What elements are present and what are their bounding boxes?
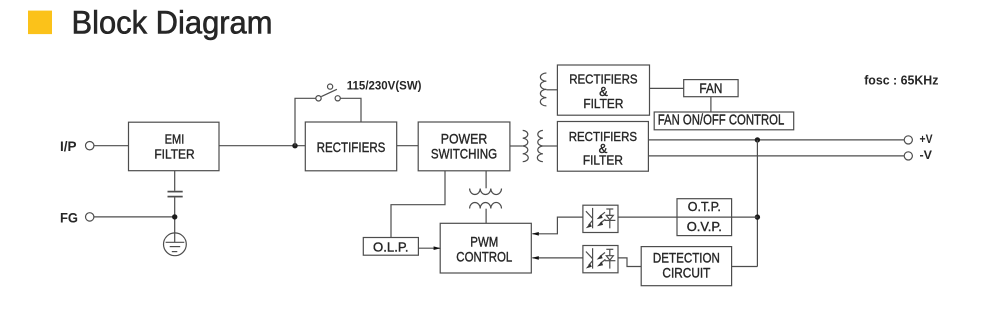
detection circuit block: [641, 247, 731, 286]
svg-text:FAN ON/OFF CONTROL: FAN ON/OFF CONTROL: [658, 112, 785, 128]
wire feedback transformer to PWM control: [485, 209, 487, 224]
wire switch to rectifiers top: [340, 98, 361, 122]
wire +V rail down to OVP and detection: [756, 140, 758, 267]
wire junction up to switch: [295, 98, 316, 145]
wire EMI filter to rectifiers: [219, 145, 305, 147]
svg-text:O.T.P.: O.T.P.: [688, 199, 721, 214]
svg-text:-V: -V: [920, 150, 933, 162]
title square: [28, 11, 52, 34]
wire photocoupler1 to OTP/OVP: [618, 216, 677, 218]
svg-text:Block Diagram: Block Diagram: [72, 5, 273, 41]
svg-text:CONTROL: CONTROL: [456, 250, 512, 265]
wire fan rectifiers to fan: [650, 87, 684, 89]
wire detection circuit to +V sense line: [732, 266, 758, 268]
junction node at OVP line: [755, 214, 760, 219]
wire Y-cap to FG node: [174, 197, 176, 233]
junction node FG: [172, 214, 177, 219]
svg-text:POWER: POWER: [441, 130, 487, 146]
wire power switching to feedback transformer: [485, 171, 487, 189]
fan on/off control block: [654, 112, 794, 130]
wire OLP to PWM (arrow): [418, 247, 439, 249]
wire fan to fan control: [710, 97, 712, 112]
svg-text:FG: FG: [60, 210, 78, 226]
feedback transformer bottom winding: [470, 202, 502, 208]
svg-text:FILTER: FILTER: [154, 146, 194, 161]
wire OVP to junction: [732, 216, 758, 218]
svg-text:RECTIFIERS: RECTIFIERS: [317, 139, 386, 155]
wire photocoupler1 to PWM (arrow): [533, 217, 583, 234]
OTP OVP block: [677, 199, 732, 236]
capacitor Y-cap plate1: [168, 191, 183, 193]
terminal I/P: [86, 142, 94, 150]
svg-text:SWITCHING: SWITCHING: [431, 145, 497, 161]
svg-text:DETECTION: DETECTION: [653, 250, 720, 265]
terminal FG: [86, 213, 94, 221]
svg-text:I/P: I/P: [60, 138, 77, 154]
svg-text:+V: +V: [920, 134, 933, 146]
switch SW 115/230V: [316, 84, 341, 101]
wire photocoupler2 to PWM (arrow): [533, 257, 583, 259]
wire transformer secondary to rectifiers-filter: [543, 145, 558, 147]
svg-text:fosc : 65KHz: fosc : 65KHz: [864, 73, 939, 88]
wire power switching to transformer primary: [510, 145, 523, 147]
rectifiers block: [305, 122, 396, 171]
terminal +V: [904, 136, 912, 144]
feedback transformer top winding: [470, 189, 502, 195]
wire power switching to OLP: [391, 171, 445, 238]
photocoupler U1: [583, 205, 618, 232]
fan block: [684, 80, 738, 97]
wire +V rail: [648, 139, 904, 141]
terminal -V: [904, 152, 912, 160]
transformer T1 primary winding: [523, 130, 529, 161]
wire I/P to EMI filter: [94, 145, 129, 147]
main rectifiers and filter block: [557, 122, 648, 172]
svg-text:115/230V(SW): 115/230V(SW): [347, 79, 422, 93]
earth ground symbol: [164, 233, 187, 256]
svg-text:EMI: EMI: [165, 131, 185, 146]
svg-text:O.V.P.: O.V.P.: [687, 219, 722, 234]
wire -V rail: [648, 155, 904, 157]
transformer T1 secondary winding: [537, 130, 543, 161]
transformer auxiliary winding for fan supply: [540, 73, 546, 106]
junction node on +V rail: [755, 137, 760, 142]
svg-text:FILTER: FILTER: [583, 153, 623, 168]
OLP block: [363, 238, 418, 256]
wire EMI filter down to Y-cap: [174, 171, 176, 191]
fan rectifiers and filter block: [557, 65, 649, 115]
wire photocoupler2 to detection circuit: [618, 258, 641, 267]
EMI filter block: [129, 122, 220, 171]
wire aux winding to fan rectifiers-filter: [546, 89, 557, 91]
power switching block: [418, 122, 510, 171]
svg-text:FAN: FAN: [699, 81, 722, 96]
wire rectifiers to power switching: [397, 145, 419, 147]
PWM control block: [440, 223, 531, 273]
svg-text:PWM: PWM: [470, 235, 498, 250]
svg-text:FILTER: FILTER: [583, 96, 623, 111]
junction node on input wire: [292, 143, 297, 148]
capacitor Y-cap plate2: [168, 196, 183, 198]
svg-text:CIRCUIT: CIRCUIT: [662, 266, 711, 281]
wire FG to ground branch: [94, 216, 175, 218]
photocoupler U2: [583, 246, 618, 273]
svg-text:O.L.P.: O.L.P.: [373, 239, 409, 254]
